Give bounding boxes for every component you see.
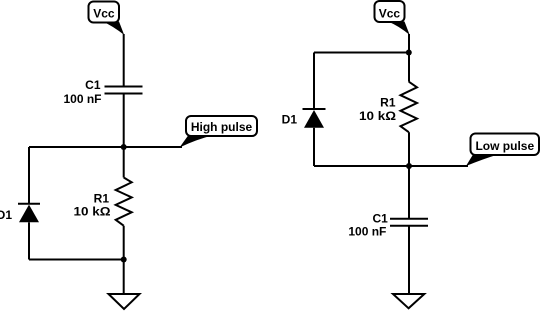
svg-text:C1: C1 <box>85 78 101 92</box>
svg-text:100 nF: 100 nF <box>348 224 386 238</box>
svg-text:R1: R1 <box>94 191 110 205</box>
resistor R1 (right) <box>401 82 418 133</box>
svg-text:Low pulse: Low pulse <box>475 139 534 153</box>
flag Low pulse <box>466 134 539 167</box>
diode D1 (left) <box>18 204 40 223</box>
junction dot (left bottom node) <box>121 257 127 263</box>
wire node to ground (left) <box>123 260 125 295</box>
wire left branch lower (right) <box>313 128 315 166</box>
wire node to C1 (right) <box>408 166 410 219</box>
label C1 100 nF (left) <box>63 78 101 106</box>
wire C1 to node (left) <box>123 94 125 178</box>
diode D1 (right) <box>303 109 326 128</box>
svg-text:100 nF: 100 nF <box>63 92 101 106</box>
ground (right) <box>393 294 424 308</box>
junction dot (right low pulse node) <box>406 163 412 169</box>
label R1 10 kOhm (right) <box>359 96 396 124</box>
flag High pulse <box>180 116 258 148</box>
label R1 10 kOhm (left) <box>74 191 111 218</box>
wire left branch lower (left) <box>28 222 30 259</box>
svg-text:10 kΩ: 10 kΩ <box>74 205 111 219</box>
wire horizontal bottom (left) <box>29 259 124 261</box>
wire Vcc to top node (right) <box>408 34 410 53</box>
svg-text:Vcc: Vcc <box>379 6 401 20</box>
wire R1 to bottom node (left) <box>123 226 125 260</box>
svg-text:D1: D1 <box>282 113 298 127</box>
capacitor C1 (right) <box>390 219 428 226</box>
svg-text:R1: R1 <box>380 96 396 110</box>
power flag Vcc (right circuit) <box>375 1 410 35</box>
ground (left) <box>109 294 140 309</box>
wire left branch upper (right) <box>313 53 315 110</box>
junction dot (left, high pulse node) <box>121 144 127 150</box>
wire C1 to ground (right) <box>408 226 410 294</box>
power flag Vcc (left circuit) <box>89 2 125 36</box>
svg-text:High pulse: High pulse <box>191 120 253 134</box>
wire horizontal top (right) <box>314 52 409 54</box>
svg-text:10 kΩ: 10 kΩ <box>359 109 396 123</box>
wire Vcc to C1 (left) <box>123 34 125 87</box>
resistor R1 (left) <box>116 178 132 226</box>
wire left branch upper (left) <box>28 147 30 204</box>
label C1 100 nF (right) <box>348 211 388 238</box>
capacitor C1 (left) <box>105 87 143 94</box>
svg-text:C1: C1 <box>372 211 388 225</box>
wire R1 to low pulse node (right) <box>408 132 410 166</box>
svg-text:Vcc: Vcc <box>93 6 115 20</box>
junction dot (right top node) <box>406 50 412 56</box>
wire node to R1 (right) <box>408 53 410 82</box>
wire horizontal low pulse net (right) <box>314 165 468 167</box>
wire horizontal node (left, high pulse net) <box>29 146 182 148</box>
svg-text:D1: D1 <box>0 208 12 222</box>
